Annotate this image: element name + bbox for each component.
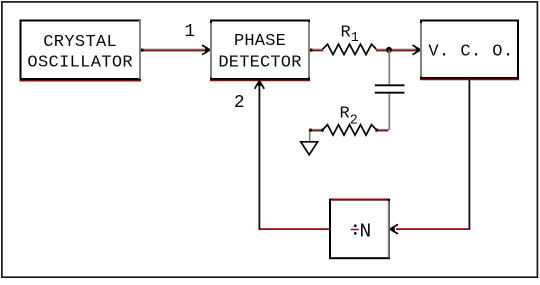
- wire junction to capacitor: [388, 50, 390, 84]
- block divide-by-N: [330, 200, 389, 259]
- capacitor: [375, 85, 405, 92]
- wire divider output to phase detector: [255, 81, 330, 230]
- wire feedback to divider: [396, 228, 470, 230]
- svg-text:2: 2: [234, 93, 245, 113]
- wire crystal oscillator output to phase detector: [141, 45, 210, 55]
- ground symbol: [301, 142, 318, 155]
- arrowhead into VCO: [413, 45, 421, 55]
- svg-text:CRYSTAL: CRYSTAL: [43, 33, 117, 52]
- svg-text:1: 1: [184, 22, 195, 42]
- svg-text:OSCILLATOR: OSCILLATOR: [27, 54, 133, 73]
- svg-text:V. C. O.: V. C. O.: [428, 42, 513, 61]
- wire phase detector output: [310, 49, 323, 52]
- resistor R1: [323, 44, 377, 54]
- wire VCO output down: [468, 80, 470, 230]
- block PHASE DETECTOR: [210, 21, 310, 81]
- wire R2 to ground: [309, 129, 323, 142]
- block VCO: [420, 21, 519, 80]
- wire R1 to VCO: [376, 49, 419, 50]
- svg-text:N: N: [360, 221, 372, 243]
- svg-text:PHASE: PHASE: [234, 32, 286, 51]
- wire capacitor to R2: [375, 94, 390, 132]
- block CRYSTAL OSCILLATOR: [20, 20, 142, 81]
- svg-text:DETECTOR: DETECTOR: [218, 53, 301, 72]
- arrowhead into divider: [390, 224, 398, 234]
- node junction dot: [386, 47, 392, 53]
- resistor R2: [323, 125, 377, 135]
